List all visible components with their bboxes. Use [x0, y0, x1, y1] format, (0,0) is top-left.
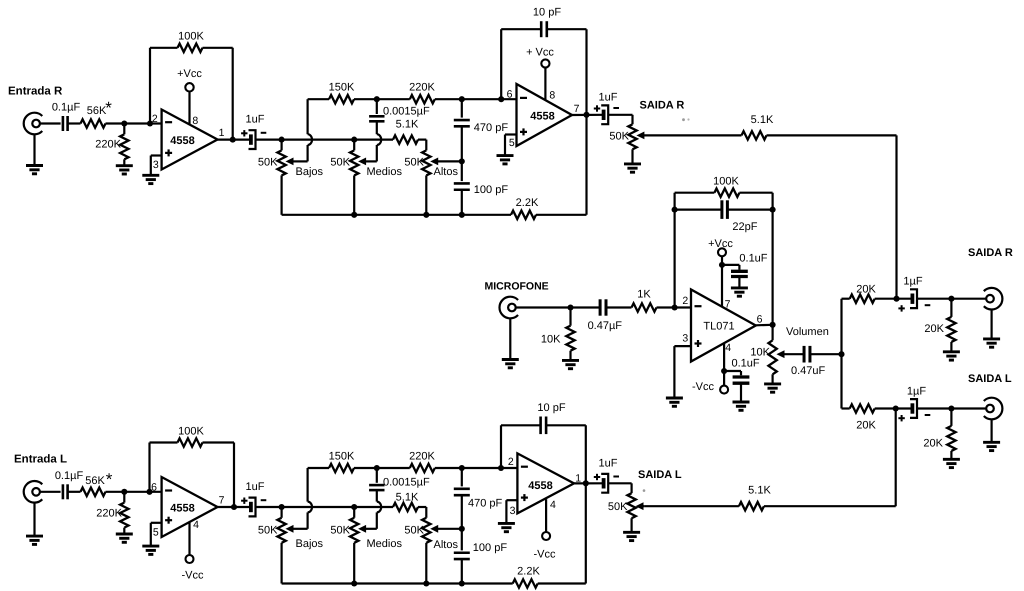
svg-text:100K: 100K — [178, 31, 204, 43]
label Entrada R — [8, 86, 63, 98]
node (22pF right) — [770, 207, 776, 213]
svg-text:10K: 10K — [541, 334, 561, 346]
wire TL071 pin 4 — [723, 343, 725, 386]
svg-text:Medios: Medios — [367, 538, 403, 550]
wire tone control input line R — [256, 139, 394, 141]
node (Bajos L top) — [279, 504, 285, 510]
svg-text:1µF: 1µF — [907, 385, 926, 397]
node (20K shunt L) — [948, 405, 954, 411]
svg-text:0.1uF: 0.1uF — [732, 358, 760, 370]
resistor 220K (bias L) — [96, 492, 128, 534]
wire to U3B pin 2 — [435, 467, 518, 469]
ground (TL071 pin 3) — [666, 346, 691, 406]
-Vcc terminal TL071 pin 4 — [692, 381, 728, 394]
wire 0.47uF to 1K — [606, 306, 632, 308]
svg-text:5.1K: 5.1K — [396, 118, 419, 130]
svg-text:100 pF: 100 pF — [473, 542, 508, 554]
wire — [875, 407, 912, 409]
+Vcc terminal U1A pin 8 — [177, 68, 202, 125]
resistor 20K (shunt L out) — [923, 409, 955, 460]
ground (20K shunt L) — [943, 459, 960, 467]
svg-text:8: 8 — [192, 115, 198, 127]
svg-text:20K: 20K — [923, 438, 943, 450]
svg-text:Medios: Medios — [367, 166, 403, 178]
wire to 20K L — [842, 407, 850, 409]
svg-text:10 pF: 10 pF — [533, 7, 561, 19]
wiper SAIDA L — [637, 503, 645, 509]
svg-text:56K: 56K — [87, 105, 107, 117]
capacitor 0.1uF (-Vcc decoupling) — [724, 358, 760, 403]
svg-text:SAIDA L: SAIDA L — [638, 469, 682, 481]
svg-text:*: * — [106, 470, 113, 489]
svg-text:20K: 20K — [924, 323, 944, 335]
svg-text:MICROFONE: MICROFONE — [485, 281, 549, 293]
node (5.1K feedback R) — [893, 296, 899, 302]
svg-text:Altos: Altos — [434, 166, 459, 178]
svg-text:Volumen: Volumen — [786, 326, 829, 338]
svg-text:1uF: 1uF — [246, 114, 265, 126]
capacitor 100pF (L) — [454, 529, 508, 584]
wire TL071 output — [756, 324, 773, 327]
capacitor 1uF (SAIDA L, polarized) — [594, 458, 619, 493]
svg-text:-Vcc: -Vcc — [692, 381, 715, 393]
resistor 100K (feedback TL071) — [713, 175, 739, 197]
svg-text:2: 2 — [152, 113, 158, 125]
label SAIDA L (output) — [968, 373, 1012, 385]
ground (U1B pin 5) — [497, 135, 517, 164]
label SAIDA L (pot) — [638, 469, 682, 481]
capacitor 0.1uF (+Vcc decoupling) — [722, 252, 768, 288]
node (Altos wiper / caps L) — [459, 526, 465, 532]
ground (U3B pin 3) — [498, 500, 518, 532]
wire to 20K R — [842, 298, 850, 300]
potentiometer 50K Altos (L) — [404, 518, 458, 584]
op-amp U3A 4558 — [151, 477, 225, 539]
svg-text:50K: 50K — [608, 501, 628, 513]
wire — [354, 98, 377, 100]
node (+Vcc / 0.1uF) — [719, 262, 725, 268]
svg-text:50K: 50K — [330, 524, 350, 536]
node (TL071 out / Volumen) — [770, 322, 776, 328]
wire to op-amp U3A pin 6 — [106, 491, 162, 493]
node (100pF bottom L) — [459, 580, 465, 586]
svg-text:5.1K: 5.1K — [751, 114, 774, 126]
ground (jack Entrada L) — [26, 502, 43, 544]
resistor 20K (series L out) — [850, 404, 877, 431]
svg-text:0.1uF: 0.1uF — [739, 252, 767, 264]
svg-text:6: 6 — [757, 313, 763, 325]
svg-text:0.0015µF: 0.0015µF — [383, 477, 430, 489]
node (input L / 220K) — [121, 489, 127, 495]
+Vcc terminal TL071 pin 7 — [708, 238, 733, 307]
svg-text:-Vcc: -Vcc — [534, 549, 557, 561]
svg-text:220K: 220K — [409, 82, 435, 94]
resistor 5.1K (feedback SAIDA L) — [739, 485, 772, 511]
wire 0.0015uF to Medios wiper L (hop) — [366, 502, 382, 529]
wire 5.1K to output junction R — [767, 135, 897, 298]
node (mic / 10K) — [567, 304, 573, 310]
wire Bajos wiper to 150K (hop over main line) — [308, 99, 329, 161]
node (input R / 220K) — [121, 120, 127, 126]
resistor 20K (series R out) — [850, 283, 877, 303]
svg-text:3: 3 — [153, 159, 159, 171]
svg-text:5: 5 — [153, 527, 159, 539]
svg-text:2: 2 — [508, 456, 514, 468]
resistor 5.1K (tone R) — [393, 118, 419, 144]
RCA jack SAIDA L — [984, 398, 1003, 420]
wiper Bajos R — [287, 158, 308, 164]
ground (Volumen) — [764, 384, 781, 392]
wire feedback loop U1A — [150, 48, 178, 124]
wire — [377, 98, 410, 100]
potentiometer 10K Volumen — [750, 325, 776, 384]
svg-text:TL071: TL071 — [703, 320, 734, 332]
resistor 56K (input R) — [81, 99, 113, 128]
capacitor 0.0015uF (L) — [369, 468, 430, 502]
potentiometer 50K SAIDA R — [609, 124, 636, 164]
svg-text:10 pF: 10 pF — [537, 402, 565, 414]
capacitor 1uF (coupling R, polarized) — [241, 114, 266, 150]
wire 5.1K L to wiper — [644, 505, 739, 507]
capacitor 0.47uF (mic in) — [588, 299, 623, 332]
label SAIDA R (pot) — [640, 100, 685, 112]
ground (20K shunt R) — [943, 352, 960, 360]
svg-text:6: 6 — [507, 89, 513, 101]
wiper Medios R — [359, 158, 366, 164]
op-amp U2 TL071 — [682, 290, 762, 362]
svg-text:0.1µF: 0.1µF — [55, 470, 84, 482]
node (TL071 inverting input) — [672, 304, 678, 310]
wiper Altos L — [431, 526, 462, 532]
wire — [917, 407, 986, 409]
resistor 220K (tone L) — [409, 451, 435, 473]
wire jack to C 0.1uF — [40, 122, 61, 124]
svg-text:1: 1 — [219, 127, 225, 139]
svg-text:56K: 56K — [85, 475, 105, 487]
wire bottom bus R — [282, 214, 511, 216]
wiper Bajos L — [287, 526, 308, 532]
capacitor 0.1uF (input L) — [55, 470, 84, 499]
RCA jack J1 Entrada R — [24, 113, 43, 135]
capacitor 100pF (R) — [454, 161, 509, 214]
-Vcc terminal U3A pin 4 — [182, 522, 205, 582]
svg-text:50K: 50K — [404, 524, 424, 536]
wire 2.2K to feedback vertical L — [538, 425, 586, 583]
svg-text:220K: 220K — [409, 451, 435, 463]
svg-text:2.2K: 2.2K — [516, 197, 539, 209]
ground (jack mic) — [502, 318, 519, 368]
resistor 56K (input L) — [81, 470, 113, 496]
wire 5.1K to Altos — [418, 140, 426, 151]
potentiometer 50K Altos (R) — [404, 150, 458, 214]
ground (220K R) — [116, 166, 133, 174]
svg-text:+Vcc: +Vcc — [177, 68, 202, 80]
svg-text:50K: 50K — [258, 524, 278, 536]
resistor 220K (tone R) — [409, 82, 435, 104]
svg-text:8: 8 — [549, 90, 555, 102]
svg-text:1uF: 1uF — [599, 458, 618, 470]
svg-text:2.2K: 2.2K — [517, 566, 540, 578]
capacitor 0.0015uF (R) — [369, 99, 430, 134]
ground (220K L) — [116, 534, 133, 542]
capacitor 1uF (SAIDA L out, polarized) — [898, 385, 930, 421]
svg-text:100 pF: 100 pF — [474, 184, 509, 196]
node (Medios top) — [351, 137, 357, 143]
label MICROFONE — [485, 281, 549, 293]
wire 10pF left L — [501, 425, 541, 468]
svg-text:220K: 220K — [96, 508, 122, 520]
svg-text:10K: 10K — [750, 347, 770, 359]
svg-text:1µF: 1µF — [903, 275, 922, 287]
svg-text:*: * — [105, 99, 112, 118]
resistor 2.2K (R) — [511, 197, 539, 219]
svg-text:100K: 100K — [178, 425, 204, 437]
potentiometer 50K Bajos (L) — [258, 507, 324, 584]
resistor 1K (mic) — [632, 289, 657, 312]
ground (jack SAIDA R) — [983, 309, 1000, 347]
artifact dots — [682, 118, 690, 121]
node (U1A out) — [230, 137, 236, 143]
svg-text:470 pF: 470 pF — [468, 498, 503, 510]
svg-text:6: 6 — [151, 482, 157, 494]
capacitor 0.1uF (input R) — [52, 102, 81, 132]
wiper Medios L — [359, 526, 366, 532]
svg-text:4: 4 — [725, 342, 731, 354]
wire 0.0015uF to Medios wiper (hop) — [366, 134, 382, 161]
wiper SAIDA R / wire to 5.1K — [638, 132, 742, 138]
node (470pF top R) — [459, 96, 465, 102]
node (5.1K feedback L) — [893, 405, 899, 411]
resistor 150K (L) — [329, 451, 355, 473]
svg-text:2: 2 — [682, 295, 688, 307]
wire U1A output — [218, 139, 251, 141]
wire mic to 0.47uF — [516, 306, 601, 308]
svg-text:7: 7 — [219, 495, 225, 507]
node (22pF left) — [672, 207, 678, 213]
op-amp U1B 4558 — [507, 84, 580, 149]
resistor 20K (shunt R out) — [924, 299, 955, 352]
capacitor 10pF (feedback U3B) — [537, 402, 565, 434]
node (10pF left L) — [498, 465, 504, 471]
wire to 50K pot L — [608, 483, 631, 493]
wire — [875, 298, 912, 300]
node (Altos bottom R) — [423, 212, 429, 218]
svg-text:0.47uF: 0.47uF — [791, 365, 826, 377]
resistor 5.1K (feedback SAIDA R) — [742, 114, 774, 140]
svg-text:7: 7 — [574, 103, 580, 115]
svg-text:100K: 100K — [713, 175, 739, 187]
resistor 5.1K (tone L) — [393, 492, 419, 512]
node (output split) — [838, 351, 844, 357]
svg-text:470 pF: 470 pF — [474, 122, 509, 134]
node (Medios L top) — [351, 504, 357, 510]
potentiometer 50K Medios (L) — [330, 507, 402, 584]
capacitor 1uF (SAIDA R out, polarized) — [898, 275, 930, 311]
svg-text:4558: 4558 — [530, 110, 554, 122]
svg-text:50K: 50K — [609, 131, 629, 143]
wire feedback loop right — [203, 48, 233, 140]
potentiometer 50K Bajos (R) — [258, 140, 324, 215]
svg-text:20K: 20K — [856, 283, 876, 295]
-Vcc terminal U3B pin 4 — [534, 499, 557, 560]
RCA jack Entrada L — [24, 481, 43, 503]
wire tone control input line L — [256, 506, 394, 508]
svg-text:4: 4 — [193, 519, 199, 531]
wire to op-amp U1A pin 2 — [106, 122, 162, 124]
svg-text:SAIDA R: SAIDA R — [640, 100, 685, 112]
ground (0.1uF -Vcc) — [733, 402, 750, 410]
potentiometer 50K SAIDA L — [608, 493, 636, 532]
node (U1B out) — [583, 112, 589, 118]
node (pin4 / 0.1uF) — [721, 368, 727, 374]
RCA jack SAIDA R — [984, 288, 1003, 310]
wire feedback TL071 left — [675, 193, 715, 308]
label Volumen — [786, 326, 829, 338]
capacitor 470pF (R) — [454, 99, 509, 161]
svg-text:50K: 50K — [258, 157, 278, 169]
resistor 150K (R) — [329, 82, 355, 104]
resistor 10K (mic) — [541, 308, 575, 361]
RCA jack mic — [499, 297, 518, 319]
ground (10K mic) — [562, 360, 579, 368]
svg-text:SAIDA L: SAIDA L — [968, 373, 1012, 385]
node (Medios bottom L) — [351, 580, 357, 586]
wire U1B output — [572, 114, 603, 116]
wire — [377, 467, 410, 469]
node (feedback L) — [146, 489, 152, 495]
svg-text:4558: 4558 — [170, 135, 194, 147]
wire — [68, 491, 81, 493]
wire 10pF left — [501, 29, 541, 99]
wire — [917, 298, 986, 300]
svg-text:0.0015µF: 0.0015µF — [383, 106, 430, 118]
ground (jack SAIDA L) — [983, 419, 1000, 451]
svg-text:50K: 50K — [330, 157, 350, 169]
node (150K/220K/0.0015uF L) — [374, 465, 380, 471]
svg-text:0.47µF: 0.47µF — [588, 320, 623, 332]
svg-text:Bajos: Bajos — [296, 166, 324, 178]
ground (U3A pin 5) — [142, 523, 161, 555]
wire feedback loop right — [203, 443, 235, 508]
label Entrada L — [14, 454, 67, 466]
capacitor 10pF (feedback U1B) — [533, 7, 561, 38]
svg-text:Entrada L: Entrada L — [14, 454, 67, 466]
svg-text:4: 4 — [550, 499, 556, 511]
svg-text:Entrada R: Entrada R — [8, 86, 63, 98]
node (feedback R) — [147, 120, 153, 126]
svg-text:150K: 150K — [329, 451, 355, 463]
svg-text:3: 3 — [682, 333, 688, 345]
svg-text:220K: 220K — [95, 138, 121, 150]
node (10pF left R) — [498, 96, 504, 102]
node (Medios bottom R) — [351, 212, 357, 218]
wire bottom bus L — [282, 582, 513, 584]
svg-text:4558: 4558 — [170, 502, 194, 514]
svg-text:1K: 1K — [637, 289, 651, 301]
svg-text:5: 5 — [509, 137, 515, 149]
wire Bajos L wiper to 150K (hop) — [308, 468, 329, 529]
svg-text:-Vcc: -Vcc — [182, 570, 205, 582]
ground (0.1uF +Vcc) — [731, 288, 748, 296]
node (Bajos top) — [279, 137, 285, 143]
node (Altos bottom L) — [423, 580, 429, 586]
wiper Volumen — [778, 351, 805, 357]
wire — [354, 467, 377, 469]
svg-text:Bajos: Bajos — [296, 538, 324, 550]
node (Altos wiper / caps R) — [459, 158, 465, 164]
svg-text:20K: 20K — [856, 420, 876, 432]
capacitor 1uF (SAIDA R, polarized) — [594, 92, 619, 125]
resistor 100K (feedback U1A) — [178, 31, 205, 53]
node (20K shunt R) — [948, 296, 954, 302]
wire to U1B pin 6 — [435, 98, 517, 100]
wire to 50K pot — [608, 115, 632, 125]
svg-text:150K: 150K — [329, 82, 355, 94]
svg-text:22pF: 22pF — [732, 221, 757, 233]
wiper Altos R — [431, 158, 462, 164]
+Vcc terminal U1B pin 8 — [526, 47, 554, 100]
wire U3B output — [574, 482, 603, 484]
op-amp U3B 4558 — [508, 453, 581, 517]
node (150K/220K/0.0015uF R) — [374, 96, 380, 102]
ground (SAIDA L pot) — [623, 532, 640, 540]
op-amp U1A 4558 — [152, 110, 225, 172]
wire output vertical — [840, 299, 842, 409]
ground (SAIDA R pot) — [624, 164, 641, 172]
wire feedback TL071 right — [739, 193, 772, 325]
ground (jack Entrada R) — [26, 134, 43, 174]
node (U3B out) — [583, 480, 589, 486]
svg-text:5.1K: 5.1K — [748, 485, 771, 497]
artifact tick — [643, 489, 646, 492]
wire jack to C 0.1uF L — [40, 491, 61, 493]
svg-text:1uF: 1uF — [246, 481, 265, 493]
node (U3A out) — [231, 504, 237, 510]
svg-text:3: 3 — [510, 505, 516, 517]
capacitor 22pF (TL071) — [675, 200, 773, 233]
wire — [68, 122, 81, 124]
label SAIDA R (output) — [968, 247, 1013, 259]
resistor 2.2K (L) — [513, 566, 541, 588]
svg-text:Altos: Altos — [434, 539, 459, 551]
wire 1K to TL071 pin 2 — [657, 306, 692, 308]
wire 5.1K feedback L vertical — [764, 409, 896, 507]
node (100pF bottom R) — [459, 212, 465, 218]
capacitor 470pF (L) — [454, 468, 503, 529]
capacitor 0.47uF (out) — [791, 346, 826, 377]
svg-text:5.1K: 5.1K — [396, 492, 419, 504]
wire U3A output — [218, 506, 251, 508]
svg-text:4558: 4558 — [528, 480, 552, 492]
ground (U1A pin 3) — [142, 156, 161, 184]
svg-text:7: 7 — [725, 299, 731, 311]
potentiometer 50K Medios (R) — [330, 140, 402, 215]
wire feedback loop U3A — [150, 443, 178, 492]
wire 0.47uF to output verticals — [810, 353, 842, 355]
resistor 100K (feedback U3A) — [178, 425, 205, 446]
node (470pF top L) — [459, 465, 465, 471]
capacitor 1uF (coupling L, polarized) — [241, 481, 266, 516]
wire 2.2K to feedback vertical — [536, 29, 587, 215]
svg-text:+ Vcc: + Vcc — [526, 47, 554, 59]
svg-text:0.1µF: 0.1µF — [52, 102, 81, 114]
wire 5.1K to Altos L — [418, 507, 426, 518]
svg-text:1uF: 1uF — [599, 92, 618, 104]
svg-text:50K: 50K — [404, 157, 424, 169]
resistor 220K (bias R) — [95, 124, 128, 166]
svg-text:SAIDA R: SAIDA R — [968, 247, 1013, 259]
